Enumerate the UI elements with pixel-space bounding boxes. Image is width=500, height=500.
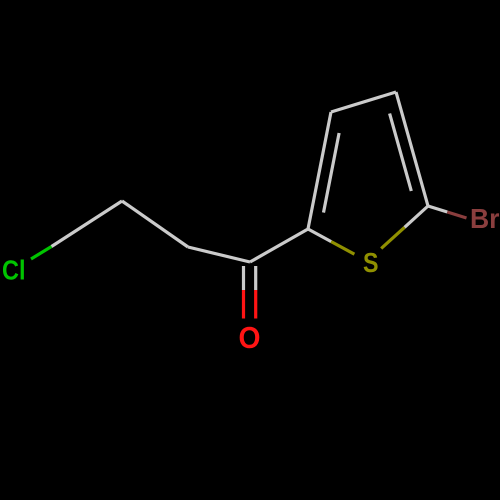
bond C5-Br, carbon half (gray) xyxy=(428,206,447,212)
ring double bond C2=C3 inner line xyxy=(324,133,340,213)
ring bond S-C2, sulfur half (dark yellow) xyxy=(331,242,354,255)
ring bond C4-C5 xyxy=(396,92,428,206)
carbonyl C=O double bond, carbon halves (gray) xyxy=(242,266,245,290)
ring double bond C4=C5 inner line xyxy=(390,114,412,192)
bond CH2-CH2 (apex to valley) xyxy=(122,201,188,247)
ring bond S-C5, sulfur half (dark yellow) xyxy=(381,227,404,248)
carbonyl C=O double bond, oxygen halves (red) xyxy=(242,290,245,319)
svg-text:Br: Br xyxy=(470,203,500,234)
bond Cl-CH2 (carbon half) / wire to apex xyxy=(52,201,123,247)
bond C5-Br, bromine half (dark red) xyxy=(447,212,466,218)
svg-text:Cl: Cl xyxy=(2,255,26,286)
bond Cl-CH2 (green half) xyxy=(31,247,52,260)
svg-text:S: S xyxy=(363,247,379,278)
ring bond S-C2, carbon half (gray) xyxy=(308,229,331,242)
ring bond S-C5, carbon half (gray) xyxy=(405,206,428,227)
ring bond C2-C3 xyxy=(308,112,331,229)
ring bond C3-C4 xyxy=(331,92,396,112)
bond C-C2 to ring xyxy=(250,229,308,262)
bond CH2-C carbonyl xyxy=(188,247,250,262)
svg-text:O: O xyxy=(239,320,261,355)
